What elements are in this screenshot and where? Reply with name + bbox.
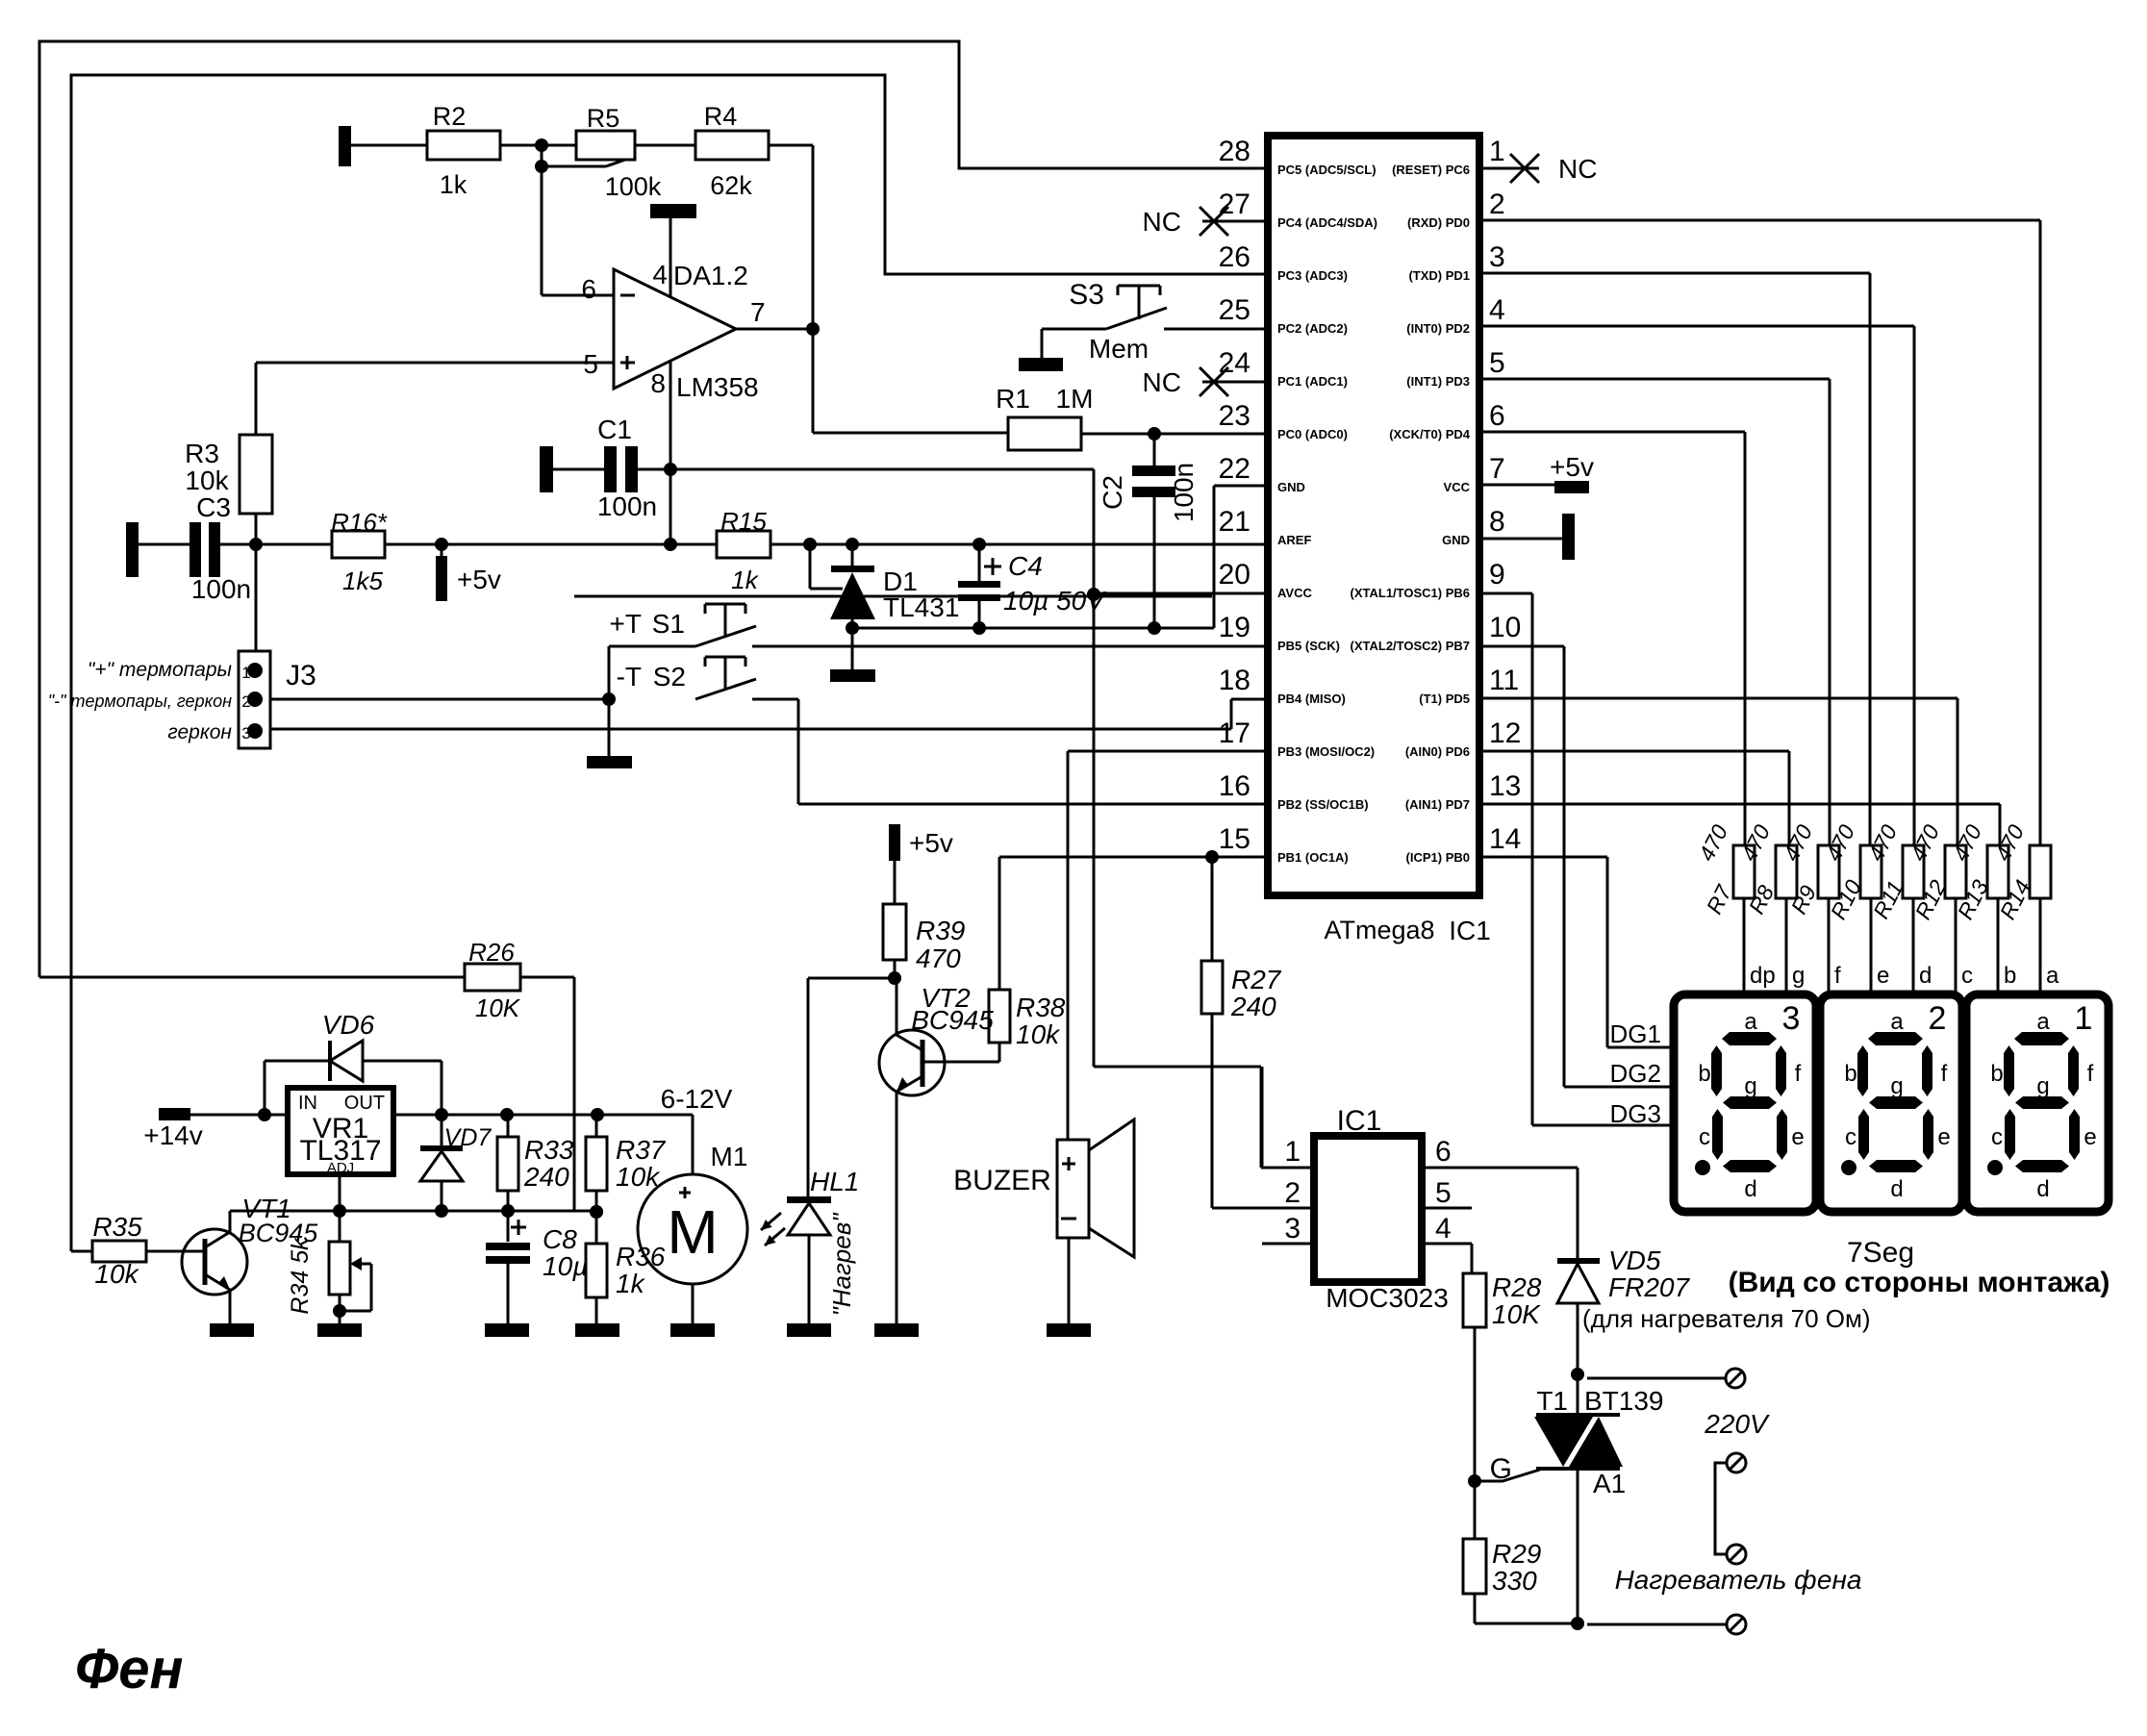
svg-text:10k: 10k — [94, 1259, 139, 1289]
svg-text:240: 240 — [523, 1162, 569, 1192]
svg-text:M: M — [667, 1197, 718, 1267]
svg-text:DG1: DG1 — [1610, 1019, 1661, 1048]
svg-text:BT139: BT139 — [1584, 1386, 1664, 1416]
svg-text:R34 5k: R34 5k — [287, 1237, 314, 1315]
svg-text:DA1.2: DA1.2 — [673, 261, 748, 290]
svg-text:7: 7 — [1489, 453, 1505, 485]
svg-text:(XTAL2/TOSC2) PB7: (XTAL2/TOSC2) PB7 — [1351, 639, 1470, 653]
svg-text:21: 21 — [1219, 506, 1250, 538]
svg-text:2: 2 — [1489, 189, 1505, 220]
svg-text:3: 3 — [241, 724, 250, 742]
svg-text:PC0 (ADC0): PC0 (ADC0) — [1277, 427, 1348, 441]
svg-text:Mem: Mem — [1089, 334, 1149, 364]
svg-text:10k: 10k — [1016, 1019, 1061, 1049]
svg-text:R38: R38 — [1016, 993, 1066, 1022]
svg-text:100n: 100n — [191, 574, 251, 604]
svg-text:C2: C2 — [1098, 475, 1127, 510]
svg-text:13: 13 — [1489, 770, 1521, 802]
svg-text:10: 10 — [1489, 612, 1521, 643]
svg-text:6-12V: 6-12V — [661, 1084, 733, 1114]
svg-text:C8: C8 — [543, 1224, 577, 1254]
svg-text:a: a — [2036, 1009, 2050, 1035]
svg-text:PB4 (MISO): PB4 (MISO) — [1277, 692, 1346, 706]
svg-text:220V: 220V — [1704, 1409, 1770, 1439]
svg-text:IC1: IC1 — [1449, 916, 1491, 945]
svg-text:R39: R39 — [916, 916, 965, 945]
svg-text:1: 1 — [1489, 136, 1505, 167]
svg-text:24: 24 — [1219, 347, 1250, 379]
svg-text:1M: 1M — [1056, 384, 1094, 414]
svg-text:AVCC: AVCC — [1277, 586, 1312, 600]
svg-text:10k: 10k — [616, 1162, 661, 1192]
svg-text:(ICP1) PB0: (ICP1) PB0 — [1406, 850, 1470, 865]
svg-text:(T1) PD5: (T1) PD5 — [1419, 692, 1470, 706]
svg-text:12: 12 — [1489, 717, 1521, 749]
svg-text:1k5: 1k5 — [342, 566, 383, 595]
svg-text:IN: IN — [298, 1093, 317, 1114]
svg-text:240: 240 — [1230, 992, 1276, 1021]
svg-text:(AIN0) PD6: (AIN0) PD6 — [1405, 744, 1470, 759]
svg-text:b: b — [1990, 1061, 2003, 1087]
svg-text:f: f — [2087, 1061, 2094, 1087]
svg-text:PB3 (MOSI/OC2): PB3 (MOSI/OC2) — [1277, 744, 1375, 759]
svg-text:28: 28 — [1219, 136, 1250, 167]
svg-text:f: f — [1795, 1061, 1802, 1087]
svg-text:+5v: +5v — [1550, 452, 1594, 482]
svg-text:OUT: OUT — [344, 1093, 385, 1114]
svg-text:BUZER: BUZER — [953, 1165, 1051, 1196]
svg-text:27: 27 — [1219, 189, 1250, 220]
svg-text:(TXD) PD1: (TXD) PD1 — [1408, 268, 1470, 283]
svg-text:(XCK/T0) PD4: (XCK/T0) PD4 — [1389, 427, 1471, 441]
svg-text:NC: NC — [1558, 154, 1597, 184]
svg-text:22: 22 — [1219, 453, 1250, 485]
svg-text:C1: C1 — [597, 415, 632, 444]
svg-text:(INT1) PD3: (INT1) PD3 — [1406, 374, 1470, 389]
svg-text:NC: NC — [1143, 367, 1181, 397]
svg-text:1k: 1k — [440, 170, 467, 199]
svg-text:C3: C3 — [196, 492, 231, 522]
svg-text:PC5 (ADC5/SCL): PC5 (ADC5/SCL) — [1277, 163, 1377, 177]
svg-text:f: f — [1834, 963, 1841, 989]
svg-text:R1: R1 — [996, 384, 1030, 414]
svg-text:J3: J3 — [286, 660, 316, 692]
svg-text:16: 16 — [1219, 770, 1250, 802]
svg-text:R5: R5 — [587, 104, 620, 133]
svg-text:R3: R3 — [185, 439, 219, 468]
svg-text:c: c — [1961, 963, 1973, 989]
svg-text:PB5 (SCK): PB5 (SCK) — [1277, 639, 1340, 653]
svg-text:330: 330 — [1492, 1566, 1537, 1596]
svg-text:19: 19 — [1219, 612, 1250, 643]
svg-text:+5v: +5v — [909, 828, 953, 858]
svg-text:VCC: VCC — [1444, 480, 1471, 494]
svg-text:9: 9 — [1489, 559, 1505, 591]
svg-text:a: a — [2046, 963, 2059, 989]
svg-text:C4: C4 — [1008, 551, 1043, 581]
svg-text:8: 8 — [650, 368, 666, 398]
svg-text:(для нагревателя 70 Ом): (для нагревателя 70 Ом) — [1582, 1304, 1871, 1333]
svg-text:(RESET) PC6: (RESET) PC6 — [1392, 163, 1470, 177]
svg-text:R15: R15 — [720, 507, 767, 536]
svg-text:g: g — [1744, 1073, 1756, 1099]
svg-text:10K: 10K — [475, 994, 521, 1022]
svg-text:b: b — [1844, 1061, 1857, 1087]
svg-text:R33: R33 — [524, 1135, 574, 1165]
svg-text:10K: 10K — [1492, 1299, 1541, 1329]
svg-text:TL431: TL431 — [883, 592, 959, 622]
svg-text:26: 26 — [1219, 241, 1250, 273]
svg-text:10k: 10k — [185, 465, 229, 495]
svg-text:R2: R2 — [433, 102, 467, 131]
svg-text:AREF: AREF — [1277, 533, 1311, 547]
svg-text:R27: R27 — [1231, 965, 1282, 994]
svg-text:2: 2 — [1284, 1177, 1301, 1209]
svg-text:470: 470 — [916, 943, 961, 973]
svg-text:DG3: DG3 — [1610, 1099, 1661, 1128]
svg-text:IC1: IC1 — [1337, 1105, 1382, 1137]
svg-text:BC945: BC945 — [911, 1005, 994, 1035]
svg-text:R35: R35 — [92, 1212, 142, 1242]
svg-text:2: 2 — [241, 692, 250, 711]
svg-text:геркон: геркон — [167, 721, 232, 743]
svg-text:e: e — [1791, 1124, 1804, 1150]
svg-text:a: a — [1744, 1009, 1757, 1035]
svg-text:"Нагрев": "Нагрев" — [827, 1212, 856, 1317]
svg-text:FR207: FR207 — [1608, 1272, 1690, 1302]
svg-text:VD6: VD6 — [322, 1010, 375, 1040]
svg-text:7: 7 — [750, 297, 766, 327]
svg-text:25: 25 — [1219, 294, 1250, 326]
svg-text:MOC3023: MOC3023 — [1326, 1283, 1449, 1313]
svg-text:d: d — [1744, 1176, 1756, 1202]
svg-text:R26: R26 — [468, 938, 515, 967]
svg-text:11: 11 — [1489, 665, 1519, 696]
svg-text:100n: 100n — [597, 491, 657, 521]
svg-text:"+" термопары: "+" термопары — [88, 659, 233, 681]
svg-text:ATmega8: ATmega8 — [1324, 916, 1434, 944]
svg-text:4: 4 — [1435, 1213, 1452, 1245]
svg-text:b: b — [1698, 1061, 1710, 1087]
svg-text:+14v: +14v — [143, 1120, 203, 1150]
svg-text:c: c — [1699, 1124, 1710, 1150]
svg-text:GND: GND — [1277, 480, 1305, 494]
svg-text:T1: T1 — [1536, 1386, 1568, 1416]
svg-text:GND: GND — [1442, 533, 1470, 547]
svg-text:R28: R28 — [1492, 1272, 1542, 1302]
svg-text:Фен: Фен — [75, 1638, 184, 1700]
svg-text:(AIN1) PD7: (AIN1) PD7 — [1405, 797, 1470, 812]
svg-text:BC945: BC945 — [239, 1219, 319, 1247]
svg-text:15: 15 — [1219, 823, 1250, 855]
svg-text:VD7: VD7 — [444, 1124, 493, 1151]
svg-text:b: b — [2004, 963, 2016, 989]
svg-text:PC1 (ADC1): PC1 (ADC1) — [1277, 374, 1348, 389]
svg-text:4: 4 — [652, 260, 668, 289]
svg-text:100k: 100k — [605, 172, 662, 201]
svg-text:4: 4 — [1489, 294, 1505, 326]
svg-text:6: 6 — [581, 274, 596, 304]
svg-text:dp: dp — [1750, 963, 1776, 989]
svg-text:(XTAL1/TOSC1) PB6: (XTAL1/TOSC1) PB6 — [1351, 586, 1470, 600]
svg-text:5: 5 — [1489, 347, 1505, 379]
svg-text:e: e — [2084, 1124, 2096, 1150]
svg-text:-T: -T — [617, 662, 642, 692]
svg-text:e: e — [1937, 1124, 1950, 1150]
svg-text:100n: 100n — [1169, 463, 1199, 522]
svg-text:PC2 (ADC2): PC2 (ADC2) — [1277, 321, 1348, 336]
svg-text:e: e — [1877, 963, 1889, 989]
svg-text:1: 1 — [2075, 1000, 2093, 1037]
svg-text:f: f — [1941, 1061, 1948, 1087]
svg-text:G: G — [1490, 1453, 1512, 1485]
svg-text:DG2: DG2 — [1610, 1059, 1661, 1088]
svg-text:LM358: LM358 — [676, 372, 759, 402]
svg-text:1: 1 — [1284, 1136, 1301, 1168]
svg-text:c: c — [1845, 1124, 1857, 1150]
svg-text:1: 1 — [241, 664, 250, 682]
svg-text:3: 3 — [1284, 1213, 1301, 1245]
svg-text:S2: S2 — [653, 662, 686, 692]
svg-text:"-" термопары, геркон: "-" термопары, геркон — [48, 692, 232, 711]
svg-text:20: 20 — [1219, 559, 1250, 591]
svg-text:23: 23 — [1219, 400, 1250, 432]
svg-text:M1: M1 — [711, 1142, 748, 1171]
svg-text:8: 8 — [1489, 506, 1505, 538]
svg-text:3: 3 — [1489, 241, 1505, 273]
svg-text:+T: +T — [610, 609, 642, 639]
svg-text:c: c — [1991, 1124, 2003, 1150]
svg-text:ADJ: ADJ — [327, 1160, 354, 1176]
svg-text:(INT0) PD2: (INT0) PD2 — [1406, 321, 1470, 336]
svg-text:1k: 1k — [616, 1269, 646, 1298]
svg-text:a: a — [1890, 1009, 1904, 1035]
svg-text:R29: R29 — [1492, 1539, 1541, 1569]
svg-text:62k: 62k — [710, 171, 752, 200]
svg-text:g: g — [1792, 963, 1805, 989]
svg-text:17: 17 — [1219, 717, 1250, 749]
svg-text:14: 14 — [1489, 823, 1521, 855]
svg-text:5: 5 — [1435, 1177, 1452, 1209]
svg-text:R37: R37 — [616, 1135, 667, 1165]
svg-text:+5v: +5v — [457, 565, 501, 594]
svg-text:7Seg: 7Seg — [1847, 1237, 1914, 1269]
svg-text:PB2 (SS/OC1B): PB2 (SS/OC1B) — [1277, 797, 1369, 812]
svg-text:g: g — [2036, 1073, 2049, 1099]
svg-text:18: 18 — [1219, 665, 1250, 696]
svg-text:PC3 (ADC3): PC3 (ADC3) — [1277, 268, 1348, 283]
svg-text:PB1 (OC1A): PB1 (OC1A) — [1277, 850, 1349, 865]
svg-text:Нагреватель фена: Нагреватель фена — [1615, 1565, 1862, 1595]
svg-text:g: g — [1890, 1073, 1903, 1099]
svg-text:NC: NC — [1143, 207, 1181, 237]
svg-text:10µ: 10µ — [543, 1251, 588, 1281]
svg-text:PC4 (ADC4/SDA): PC4 (ADC4/SDA) — [1277, 215, 1377, 230]
svg-text:10µ 50V: 10µ 50V — [1003, 586, 1106, 616]
svg-text:1k: 1k — [731, 566, 759, 594]
svg-text:2: 2 — [1929, 1000, 1947, 1037]
svg-text:(Вид со стороны монтажа): (Вид со стороны монтажа) — [1729, 1267, 2110, 1298]
svg-text:(RXD) PD0: (RXD) PD0 — [1407, 215, 1470, 230]
svg-text:d: d — [2036, 1176, 2049, 1202]
svg-text:VD5: VD5 — [1608, 1245, 1661, 1275]
svg-text:R16*: R16* — [331, 508, 388, 537]
svg-text:3: 3 — [1782, 1000, 1801, 1037]
svg-text:A1: A1 — [1593, 1469, 1626, 1498]
svg-text:S3: S3 — [1069, 279, 1104, 311]
svg-text:6: 6 — [1435, 1136, 1452, 1168]
svg-text:HL1: HL1 — [810, 1167, 859, 1196]
svg-text:d: d — [1890, 1176, 1903, 1202]
svg-text:d: d — [1919, 963, 1932, 989]
svg-text:6: 6 — [1489, 400, 1505, 432]
svg-text:S1: S1 — [652, 609, 685, 639]
svg-text:5: 5 — [583, 349, 598, 379]
svg-text:R4: R4 — [704, 102, 738, 131]
